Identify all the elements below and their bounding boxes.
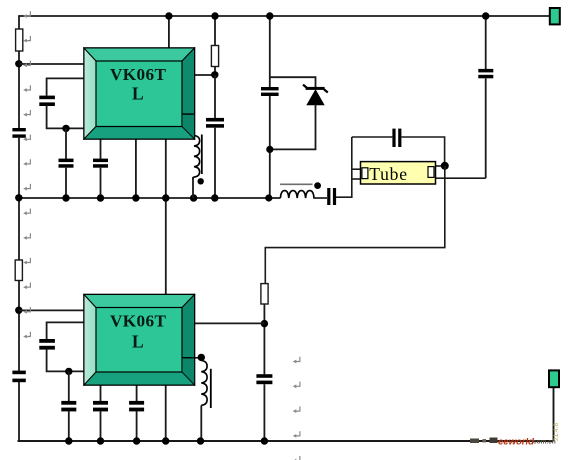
tube FL1	[361, 162, 436, 184]
wire tube right stub to node E	[434, 165, 445, 167]
wire node G to U2	[19, 309, 85, 311]
capacitor C11	[93, 401, 108, 412]
node F dot	[261, 320, 268, 327]
capacitor C5	[206, 118, 224, 128]
inductor L1 vertical beside U1	[193, 136, 200, 199]
wire left rail C2 to R3	[18, 138, 20, 260]
inductor L3 vertical beside U2	[201, 361, 207, 406]
wire U2 right pin to node F	[195, 322, 265, 324]
formatting marks left column	[23, 11, 30, 338]
resistor R1	[16, 29, 23, 51]
wire top rail	[19, 15, 550, 17]
watermark	[470, 423, 560, 448]
wire U2 pin to L3 dot	[182, 357, 201, 359]
wire U1 bottom pin1	[100, 139, 102, 159]
U2 pin5 notch	[182, 357, 195, 359]
capacitor C1	[39, 96, 55, 106]
capacitor C15 above tube	[392, 129, 401, 147]
node dots on bottom rail	[65, 437, 72, 444]
terminal J1 top right	[550, 8, 560, 24]
wire C10 to bottom rail	[68, 411, 70, 441]
wire left rail R1 to C2	[18, 51, 20, 128]
wire top rail to R2	[214, 16, 216, 46]
wire zener bottom to node D	[270, 105, 316, 150]
wire C6 to node D to rail1	[269, 96, 271, 198]
L1 phase dot	[198, 178, 204, 184]
wire C4 to rail1	[100, 168, 102, 198]
wire C15 to node E	[401, 137, 444, 166]
wire tube left stubs	[352, 168, 362, 170]
node E dot	[441, 162, 449, 170]
wire L3 to bottom rail	[200, 405, 202, 441]
wire left rail upper	[18, 15, 20, 29]
wire node E down and across to R4	[265, 166, 445, 284]
svg-text:L: L	[132, 84, 144, 104]
wire branch to zener top	[270, 77, 316, 87]
resistor R2	[211, 46, 218, 67]
wire tube right pin2 to C7 branch	[436, 177, 486, 179]
resistor R3	[15, 260, 22, 281]
wire C3 to rail1	[65, 168, 67, 198]
wire node C to C5	[214, 75, 216, 118]
L2 core bar	[280, 183, 313, 185]
IC U1 VK06TL	[84, 48, 195, 139]
wire U1 bottom pin2 to rail1	[135, 139, 137, 198]
wire C13 to bottom rail	[263, 384, 265, 441]
capacitor C13	[256, 374, 272, 384]
L3 core bar	[210, 369, 212, 408]
wire R2 to node C	[214, 67, 216, 76]
wire R4 to node F	[263, 304, 265, 374]
wire U2 bottom pin3 to bottom rail	[165, 385, 167, 442]
wire U1 left pin2 loop to C1	[47, 78, 85, 95]
wire top rail to C7	[485, 16, 487, 69]
node dots on top rail	[165, 12, 172, 19]
wire U1 right pin to node C	[195, 74, 216, 76]
capacitor C2 on left rail	[12, 128, 25, 138]
capacitor C4	[93, 159, 108, 168]
capacitor C9	[39, 339, 55, 350]
svg-text:VK06T: VK06T	[110, 65, 167, 84]
wire left rail R3 to C8	[18, 281, 20, 372]
wire top rail to U1 top	[168, 16, 170, 49]
U1 pin5 notch	[182, 113, 195, 115]
wire top rail to C6	[269, 16, 271, 87]
wire C5 to rail1	[214, 128, 216, 198]
svg-text:Tube: Tube	[369, 164, 408, 184]
capacitor C6	[261, 87, 279, 96]
wire node B down to C3	[65, 128, 67, 158]
capacitor C12	[129, 401, 144, 412]
wire C11 to bottom rail	[100, 411, 102, 441]
wire U2 bottom pin2	[136, 385, 138, 402]
wire left rail C8 to bottom rail	[18, 382, 20, 441]
node dots on rail1	[15, 194, 22, 201]
svg-text:VK06T: VK06T	[110, 312, 167, 331]
node D dot	[266, 146, 273, 153]
wire U2 bottom pin1	[100, 385, 102, 402]
zener diode D1	[303, 85, 328, 105]
capacitor C3	[59, 159, 74, 168]
IC U2 VK06TL	[84, 295, 195, 386]
wire bottom terminal lead	[553, 386, 555, 441]
node G dot left rail y310	[15, 307, 22, 314]
bottom rail	[18, 440, 554, 442]
L3 phase dot	[198, 354, 205, 361]
wire C7 to tube pin2 wire	[485, 78, 487, 178]
svg-text:21.4.8: 21.4.8	[553, 423, 560, 441]
capacitor C14 series in rail1	[327, 188, 336, 205]
terminal J2 bottom right	[549, 370, 559, 387]
svg-text:eeworld: eeworld	[498, 437, 534, 448]
formatting marks middle column	[293, 357, 300, 460]
wire U2 left pin2 loop to C9	[47, 322, 85, 339]
capacitor C8 on left rail	[12, 371, 25, 383]
svg-text:L: L	[132, 332, 144, 352]
wire C12 to bottom rail	[136, 411, 138, 441]
rail1 horizontal	[18, 197, 280, 199]
node A dot left rail y64	[15, 60, 22, 67]
wire C9 to node H	[47, 349, 85, 371]
wire node H down to C10	[68, 371, 70, 401]
wire C1 to node B	[47, 106, 85, 129]
L2 phase dot	[314, 182, 321, 189]
L1 core bar	[201, 135, 203, 175]
capacitor C10	[61, 401, 76, 412]
node H dot	[65, 368, 72, 375]
capacitor C7	[478, 69, 493, 78]
resistor R4	[261, 284, 268, 304]
wire loop top with C15	[352, 136, 393, 138]
wire node A to U1 pin	[19, 63, 85, 65]
node C dot	[211, 71, 218, 78]
node B dot	[62, 125, 69, 132]
wire U1 bottom pin3 through rail1 to U2 top	[165, 139, 167, 295]
wire C14 to tube left node	[336, 137, 352, 197]
inductor L2 horizontal in rail1	[280, 191, 327, 198]
